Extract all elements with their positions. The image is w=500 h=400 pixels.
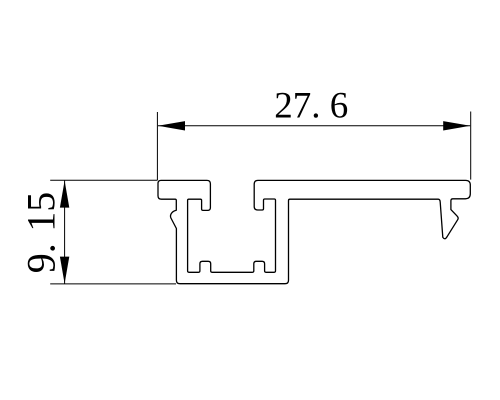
- dimension 27.6: right extension line: [470, 112, 472, 180]
- dimension 27.6: left arrowhead: [158, 121, 185, 130]
- dimension 9.15: top arrowhead: [60, 181, 69, 208]
- dimension 9.15: bottom extension line: [50, 283, 176, 285]
- profile outline: [158, 180, 470, 283]
- dimension 27.6: dimension line: [158, 125, 470, 127]
- dimension 9.15: bottom arrowhead: [60, 257, 69, 284]
- dimension 27.6: right arrowhead: [443, 121, 470, 130]
- dimension 27.6: left extension line: [156, 112, 158, 180]
- svg-text:27. 6: 27. 6: [274, 86, 348, 127]
- dimension 9.15: top extension line: [50, 179, 157, 181]
- dimension 9.15: dimension line: [64, 181, 66, 284]
- svg-text:9. 15: 9. 15: [19, 192, 64, 274]
